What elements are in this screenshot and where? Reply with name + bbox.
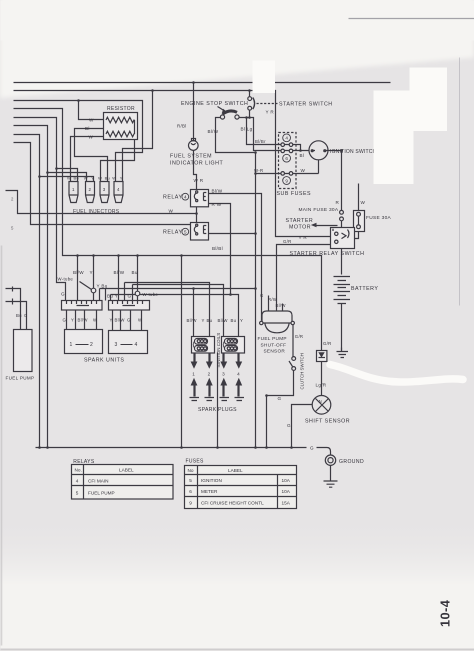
svg-text:5: 5 xyxy=(76,491,79,496)
resistor element lower zigzag xyxy=(106,131,135,137)
svg-text:Bl/W: Bl/W xyxy=(73,270,84,275)
wire W feed to relay junction xyxy=(6,191,197,214)
whiteout patch right upper xyxy=(410,68,448,132)
starter motor arrowhead xyxy=(311,223,317,228)
svg-text:15A: 15A xyxy=(282,500,291,505)
grommet W-tube right xyxy=(135,291,140,296)
spark plug 3 xyxy=(222,386,224,397)
svg-text:Bl/Bl: Bl/Bl xyxy=(212,246,223,251)
wire bus line L8 (to relay 5) xyxy=(14,143,191,225)
wire resistor output staircase to injector 3 W pin xyxy=(101,140,135,182)
fuel injector 4 xyxy=(114,182,123,203)
svg-text:ENGINE STOP SWITCH: ENGINE STOP SWITCH xyxy=(181,101,248,107)
svg-text:Bl/W: Bl/W xyxy=(114,270,125,275)
svg-text:Y R: Y R xyxy=(266,110,275,115)
svg-text:CFI MAIN: CFI MAIN xyxy=(88,478,109,483)
svg-text:5: 5 xyxy=(11,226,14,231)
svg-text:9: 9 xyxy=(189,500,192,505)
wire bus line L1 (top, to fuse area) xyxy=(14,82,391,84)
svg-text:Bl Lg: Bl Lg xyxy=(241,127,253,132)
fuses table xyxy=(185,466,297,509)
spark plug 1 xyxy=(193,386,195,397)
fuel pump shut-off sensor body xyxy=(262,311,292,333)
svg-text:G: G xyxy=(61,292,65,297)
wire sub fuse row 3 W-R line xyxy=(256,160,319,174)
coil HT lead arrow 3 xyxy=(222,353,224,363)
wire fuel pump Bu feed xyxy=(6,289,21,330)
wire W drop to fuse 30A xyxy=(358,184,360,211)
right page-edge line xyxy=(459,58,461,306)
svg-text:MAIN FUSE 30A: MAIN FUSE 30A xyxy=(299,207,339,213)
svg-text:Bu: Bu xyxy=(16,313,22,318)
wire spark unit W-tube drops xyxy=(94,256,138,301)
wire bus line L7 (down to ground bus) xyxy=(14,135,40,448)
svg-text:FUEL PUMP: FUEL PUMP xyxy=(88,491,115,496)
wire from indicator light to relay 4 xyxy=(194,151,197,190)
wire relay 4 output R W down xyxy=(209,204,231,295)
svg-text:W-R: W-R xyxy=(254,168,263,173)
svg-text:Y: Y xyxy=(110,318,113,323)
ignition coil 1-2 windings xyxy=(195,339,208,345)
grommet W-tube left xyxy=(91,288,96,293)
svg-text:Bl/W: Bl/W xyxy=(218,318,229,323)
ground symbol near diode (battery earth) xyxy=(341,348,343,352)
svg-text:FUEL SYSTEM: FUEL SYSTEM xyxy=(170,154,212,160)
svg-text:10A: 10A xyxy=(282,489,291,494)
wire staircase to injector 1 Bu pin xyxy=(57,169,78,182)
svg-text:No.: No. xyxy=(75,468,82,473)
svg-text:SPARK PLUGS: SPARK PLUGS xyxy=(198,407,237,413)
svg-text:Bl/W: Bl/W xyxy=(115,318,126,323)
svg-text:W: W xyxy=(89,117,94,122)
svg-text:Y R: Y R xyxy=(299,235,308,240)
svg-text:Bu: Bu xyxy=(231,318,237,323)
svg-text:SPARK UNITS: SPARK UNITS xyxy=(84,358,124,364)
diode D xyxy=(317,351,327,362)
svg-text:R/W: R/W xyxy=(268,297,278,302)
sub fuse 2 element xyxy=(281,149,285,153)
svg-text:2: 2 xyxy=(89,187,92,192)
relay 4 box xyxy=(191,190,209,207)
svg-text:4: 4 xyxy=(184,194,187,199)
svg-text:R W: R W xyxy=(212,202,222,207)
wire bus line L5 + G feed to spark unit strip xyxy=(14,118,66,301)
wire coil feed run y288.2 xyxy=(100,289,256,337)
svg-text:G/R: G/R xyxy=(295,334,304,339)
wire sensor pin Bl/W xyxy=(282,304,284,312)
wire long vertical to ground bus xyxy=(181,256,183,448)
wire relay 4 output Bl/W to ground bus xyxy=(209,194,262,321)
svg-text:2: 2 xyxy=(208,372,211,377)
svg-text:Bu: Bu xyxy=(207,318,213,323)
wire diode to shift sensor xyxy=(321,362,323,396)
svg-text:G: G xyxy=(278,396,282,401)
wire shift sensor to ground bus xyxy=(292,405,313,448)
svg-text:Bl/W: Bl/W xyxy=(276,303,287,308)
wire sub fuse row 1 link xyxy=(285,145,301,151)
svg-text:RELAY: RELAY xyxy=(163,195,182,201)
svg-text:GROUND: GROUND xyxy=(339,459,364,465)
sub fuses dashed box xyxy=(279,133,297,189)
svg-text:W: W xyxy=(112,176,116,181)
svg-text:2: 2 xyxy=(90,342,93,348)
svg-text:6: 6 xyxy=(285,156,288,161)
wire main fuse to starter relay switch xyxy=(341,221,343,228)
wire resistor Bl lead staircase to injector 3 Y pin xyxy=(75,129,108,182)
svg-text:G: G xyxy=(310,446,314,451)
starter relay switch box xyxy=(331,228,355,249)
fuel injector 3 xyxy=(100,182,109,203)
coil HT lead arrow 1 xyxy=(193,353,195,363)
svg-text:Bl: Bl xyxy=(300,153,305,158)
svg-text:Y: Y xyxy=(90,270,93,275)
svg-text:1: 1 xyxy=(72,187,75,192)
wire engine stop switch left to Bl/W run down to ground bus xyxy=(216,118,256,448)
svg-text:3: 3 xyxy=(115,342,118,348)
svg-text:IGNITION: IGNITION xyxy=(201,478,222,483)
whiteout patch upper xyxy=(253,61,276,94)
wire fuse 30A to starter relay switch xyxy=(355,232,359,239)
svg-text:SHIFT SENSOR: SHIFT SENSOR xyxy=(305,418,350,424)
svg-text:LABEL: LABEL xyxy=(119,468,134,473)
svg-text:RELAYS: RELAYS xyxy=(73,459,95,465)
svg-text:W: W xyxy=(169,208,174,213)
svg-text:FUEL INJECTORS: FUEL INJECTORS xyxy=(73,209,120,215)
wire bus line L3 + staircase to injector 4 W pin xyxy=(14,101,143,182)
starter switch contacts xyxy=(248,97,252,101)
svg-text:BATTERY: BATTERY xyxy=(351,286,378,292)
svg-text:FUSES: FUSES xyxy=(186,458,205,464)
svg-text:Y: Y xyxy=(91,176,94,181)
whiteout streak xyxy=(330,365,463,383)
svg-text:W-tube: W-tube xyxy=(58,277,74,282)
svg-text:Bl: Bl xyxy=(85,126,90,131)
svg-text:G: G xyxy=(260,293,264,298)
wire staircase to injector 2 Y pin xyxy=(40,177,94,182)
spark unit box linking dashes xyxy=(76,344,133,346)
wire G/R starter relay to fuel pump shut-off sensor xyxy=(277,245,331,312)
svg-text:W: W xyxy=(93,318,98,323)
svg-text:G/R: G/R xyxy=(323,341,332,346)
relay 5 box xyxy=(191,223,209,241)
svg-text:6: 6 xyxy=(189,489,192,494)
svg-text:W: W xyxy=(67,176,71,181)
svg-text:W: W xyxy=(89,134,94,139)
wire diagonal Y jog xyxy=(80,282,92,290)
relay 5 contact xyxy=(204,226,207,234)
svg-text:W: W xyxy=(84,176,88,181)
svg-text:SHUT-OFF: SHUT-OFF xyxy=(261,342,287,347)
svg-text:IGNITION SWITCH: IGNITION SWITCH xyxy=(330,149,377,155)
relays table xyxy=(72,465,174,500)
svg-text:5: 5 xyxy=(184,229,187,234)
relay 5 coil xyxy=(194,226,198,233)
svg-text:Y Bu: Y Bu xyxy=(97,284,108,289)
svg-text:FUEL PUMP: FUEL PUMP xyxy=(258,336,287,341)
svg-text:MOTOR: MOTOR xyxy=(289,225,311,231)
top white scan band xyxy=(0,0,474,98)
svg-text:W: W xyxy=(138,318,143,323)
wire bus line L6 (down to ground bus) xyxy=(14,126,48,448)
battery ground xyxy=(337,352,349,358)
svg-text:R: R xyxy=(336,200,340,205)
svg-text:SENSOR: SENSOR xyxy=(264,349,286,354)
fuel injector 2 xyxy=(86,182,95,203)
starter relay coil contacts xyxy=(335,232,338,235)
wire resistor W top lead xyxy=(79,101,104,120)
engine stop switch pointer arrow xyxy=(218,107,226,112)
svg-text:G: G xyxy=(63,318,67,323)
relay 4 coil xyxy=(194,193,198,200)
wire clutch switch top G/R xyxy=(292,325,294,357)
svg-text:Bu: Bu xyxy=(105,176,111,181)
fuel injector 1 xyxy=(69,182,78,203)
svg-text:9: 9 xyxy=(285,178,288,183)
starter switch blade xyxy=(253,98,255,110)
svg-text:4: 4 xyxy=(285,136,288,141)
left page-edge shading xyxy=(1,246,3,646)
svg-text:LABEL: LABEL xyxy=(228,468,243,473)
svg-text:N: N xyxy=(319,399,322,404)
svg-text:G: G xyxy=(128,294,132,299)
shift sensor xyxy=(312,396,331,415)
circled 4 relay label xyxy=(182,134,291,235)
sub fuse 3 element xyxy=(281,172,285,176)
starter switch dashed pointer xyxy=(257,103,278,105)
svg-text:Bu: Bu xyxy=(132,270,138,275)
svg-text:Bl/Br: Bl/Br xyxy=(255,139,266,144)
svg-text:4: 4 xyxy=(135,342,138,348)
svg-text:STARTER SWITCH: STARTER SWITCH xyxy=(279,102,333,108)
ground bus xyxy=(36,448,331,455)
svg-text:FUEL PUMP: FUEL PUMP xyxy=(6,376,35,381)
svg-text:G: G xyxy=(287,423,291,428)
fuse 30A box xyxy=(354,211,365,232)
svg-text:3: 3 xyxy=(222,372,225,377)
relay 4 contact xyxy=(204,193,207,201)
svg-text:3: 3 xyxy=(103,187,106,192)
resistor element upper zigzag xyxy=(106,117,135,123)
wire starter motor arrow line xyxy=(317,225,338,227)
fuel system indicator light bulb xyxy=(189,141,199,151)
svg-text:CLUTCH SWITCH: CLUTCH SWITCH xyxy=(300,353,305,389)
top-right scan line xyxy=(349,18,474,20)
svg-text:1: 1 xyxy=(70,342,73,348)
svg-text:4: 4 xyxy=(237,372,240,377)
svg-text:5: 5 xyxy=(189,478,192,483)
svg-text:G/R: G/R xyxy=(283,239,292,244)
spark plug 4 xyxy=(237,386,239,397)
svg-text:Bu: Bu xyxy=(74,176,80,181)
spark unit connector strip left xyxy=(62,301,103,311)
wire battery negative to ground xyxy=(341,304,343,351)
wire clutch switch to ground bus xyxy=(267,371,294,448)
wire coil feed run y282 xyxy=(125,283,210,337)
wire staircase from L2 drop to injector 4 Y pin xyxy=(123,91,153,182)
bottom white scan band xyxy=(1,516,474,586)
connector ticks on pump feeds xyxy=(12,287,14,305)
wire sensor pin G xyxy=(268,296,270,312)
svg-text:W: W xyxy=(98,176,102,181)
svg-text:Lg/R: Lg/R xyxy=(316,383,327,388)
svg-text:RESISTOR: RESISTOR xyxy=(107,106,135,112)
svg-text:2: 2 xyxy=(11,197,14,202)
wire coil feed run y294.6 xyxy=(111,295,239,337)
sub fuse 1 element xyxy=(281,143,285,147)
component name labels xyxy=(6,101,392,465)
clutch switch contacts xyxy=(292,357,296,361)
svg-text:W R: W R xyxy=(194,178,204,183)
svg-text:1: 1 xyxy=(192,372,195,377)
wire relay 4 to relay 5 link xyxy=(196,207,198,223)
ground terminal xyxy=(325,455,335,465)
svg-text:Y: Y xyxy=(240,318,243,323)
wire resistor W bottom lead to injector 1 W pin xyxy=(71,137,104,182)
wire coil ground to bus xyxy=(217,353,219,448)
svg-text:Bl/W: Bl/W xyxy=(187,318,198,323)
coil HT lead arrow 4 xyxy=(237,353,239,363)
svg-text:METER: METER xyxy=(201,489,218,494)
spark unit connector strip right xyxy=(109,301,150,311)
wire staircase to injector 2 W pin xyxy=(48,173,87,182)
wire starter switch lower terminal down xyxy=(249,111,251,118)
svg-text:RELAY: RELAY xyxy=(163,230,182,236)
wire Bl drop to sub fuse row 1 xyxy=(247,118,281,145)
svg-text:W: W xyxy=(361,200,366,205)
spark unit box 3-4 xyxy=(109,331,148,354)
spark unit box 1-2 xyxy=(65,330,103,354)
svg-text:INDICATOR LIGHT: INDICATOR LIGHT xyxy=(170,161,223,167)
svg-text:10A: 10A xyxy=(282,478,291,483)
svg-text:Bu Y: Bu Y xyxy=(107,294,118,299)
ignition coil 3-4 windings xyxy=(225,339,238,345)
wire starter relay to battery xyxy=(341,249,343,275)
wire relay 5 output Bl/Bl down to ground bus xyxy=(209,233,256,235)
spark unit strip lower pins right xyxy=(113,311,142,331)
svg-text:STARTER RELAY SWITCH: STARTER RELAY SWITCH xyxy=(290,251,365,257)
svg-text:W-tube: W-tube xyxy=(143,292,159,297)
svg-text:Bl/W: Bl/W xyxy=(212,189,223,194)
wire coil feed run y284.8 xyxy=(133,285,224,337)
whiteout patch right mid xyxy=(374,91,414,185)
svg-text:Y: Y xyxy=(202,318,205,323)
svg-text:G: G xyxy=(127,318,131,323)
svg-text:G: G xyxy=(24,313,28,318)
main fuse 30A element xyxy=(340,210,344,214)
svg-text:W: W xyxy=(301,168,306,173)
wire engine stop switch right to starter switch junction xyxy=(240,118,281,151)
svg-text:FUSE 30A: FUSE 30A xyxy=(366,215,392,221)
svg-text:4: 4 xyxy=(117,187,120,192)
spark plug 2 xyxy=(208,386,210,397)
svg-text:Y: Y xyxy=(120,176,123,181)
svg-text:CFI CRUISE HEIGHT CONTL: CFI CRUISE HEIGHT CONTL xyxy=(201,500,264,505)
svg-text:4: 4 xyxy=(76,478,79,483)
engine stop switch contacts xyxy=(220,115,224,119)
resistor right joining lead xyxy=(134,120,136,134)
svg-text:Y: Y xyxy=(71,318,74,323)
engine stop switch blade xyxy=(223,111,238,114)
svg-text:Bl/W: Bl/W xyxy=(78,318,89,323)
svg-text:STARTER: STARTER xyxy=(286,218,314,224)
table texts xyxy=(75,468,291,506)
battery xyxy=(334,277,351,304)
ignition coil 3-4 box xyxy=(222,337,245,354)
coil HT lead arrow 2 xyxy=(208,353,210,363)
ignition switch body xyxy=(309,141,328,160)
wire spark unit Bl/W drops xyxy=(78,256,119,301)
bottom page-edge line xyxy=(1,649,474,651)
wire starter switch upper terminal to bus xyxy=(249,91,251,97)
svg-text:R/Bl: R/Bl xyxy=(177,124,187,129)
svg-text:IGNITION COILS: IGNITION COILS xyxy=(216,333,221,368)
svg-text:10-4: 10-4 xyxy=(438,599,453,627)
svg-text:Bl/W: Bl/W xyxy=(208,129,219,134)
wire bus line L2 (to starter relay via Y R) xyxy=(14,91,331,237)
resistor R box xyxy=(104,113,138,140)
fuel pump box xyxy=(14,330,33,372)
wire bus line L4 + long G/R run to diode xyxy=(14,109,322,351)
wire sub fuse row 2 to ignition switch xyxy=(285,150,310,152)
spark unit strip lower pins left xyxy=(67,311,97,330)
svg-text:No: No xyxy=(188,468,194,473)
wire R/Bl from bus to indicator light xyxy=(193,83,195,141)
ignition coil 1-2 box xyxy=(192,337,215,354)
wire ignition switch output R down to main fuse xyxy=(329,151,342,211)
svg-text:SUB FUSES: SUB FUSES xyxy=(277,191,312,197)
wire fuel pump G feed xyxy=(6,302,27,330)
